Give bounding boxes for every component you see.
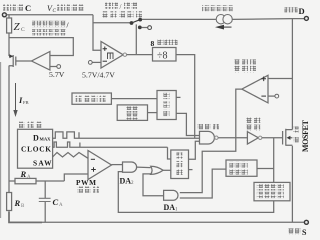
wire ff1 to main gate	[176, 113, 199, 135]
and-gate A	[123, 162, 137, 172]
label - input	[261, 95, 266, 97]
resistor RB	[7, 193, 12, 211]
flip-flop FF1 box	[157, 91, 176, 120]
wire source rail	[291, 146, 293, 223]
node - input terminal	[88, 61, 92, 65]
min on-time delay box 最小导通时间延迟	[254, 182, 290, 200]
or-gate	[151, 166, 163, 174]
wire clock to ff2	[168, 147, 171, 159]
label PWM 比较器	[76, 178, 99, 193]
label - input	[103, 60, 107, 62]
terminal S	[304, 220, 308, 224]
capacitor CA	[39, 181, 51, 222]
svg-text:÷8: ÷8	[157, 51, 168, 62]
terminal D	[304, 16, 308, 20]
label DA2	[120, 176, 135, 186]
power-on reset box	[117, 105, 147, 121]
waveform SAW	[53, 153, 88, 159]
wire ff2 stub	[189, 169, 193, 171]
svg-text:5.7V/4.7V: 5.7V/4.7V	[82, 71, 115, 80]
label + input	[103, 47, 107, 51]
op-amp shunt regulator	[32, 52, 50, 71]
svg-text:D: D	[299, 6, 305, 16]
label 过电流比较器	[234, 59, 256, 72]
node switch dot 3	[138, 26, 142, 30]
svg-text:D: D	[33, 133, 39, 142]
wire - input stub	[268, 95, 275, 97]
wire left rail upper	[8, 15, 10, 193]
svg-text:PWM: PWM	[76, 178, 96, 187]
wire RA node to PWM	[64, 174, 88, 181]
label 门极驱动	[246, 118, 260, 131]
wire switch contact stub	[142, 27, 148, 29]
wire + input to drain rail	[268, 78, 292, 80]
oscillator box	[18, 129, 53, 168]
wire drain rail vertical	[291, 19, 293, 130]
label - input	[91, 158, 95, 160]
wire Vc down	[93, 15, 101, 50]
wire andA lower input feedback	[118, 172, 273, 213]
wire andB lower output	[180, 169, 226, 198]
wire bottom source rail	[9, 221, 305, 223]
label hysteresis glyph	[108, 53, 114, 59]
op-amp overcurrent comparator	[242, 75, 268, 103]
current source	[216, 15, 232, 24]
node driver bubble	[259, 136, 262, 139]
wire C rail	[7, 14, 94, 16]
label + input	[91, 167, 96, 172]
svg-text:S: S	[302, 228, 307, 236]
label 功率	[293, 127, 299, 143]
svg-text:FB: FB	[23, 100, 29, 105]
label 主控门	[197, 123, 219, 129]
thermal protection box	[72, 93, 111, 104]
svg-text:/: /	[120, 3, 122, 11]
label Vc控制电压	[47, 4, 84, 14]
wire IFB arrow	[13, 83, 17, 117]
label RB	[14, 198, 26, 209]
wire PWM out	[112, 164, 123, 166]
wire rail below RB	[8, 211, 10, 223]
wire nand out	[218, 137, 247, 139]
wire top drain rail	[142, 18, 304, 21]
label RA	[20, 169, 32, 180]
label 源极S	[288, 228, 307, 237]
node 5.7V ref terminal	[57, 65, 61, 69]
svg-text:CLOCK: CLOCK	[21, 145, 51, 154]
transistor shunt MOSFET	[9, 54, 16, 67]
node switch dot 2	[138, 18, 142, 22]
wire driver to gate	[262, 137, 283, 139]
label 控制端C	[3, 3, 31, 13]
label 漏极D	[285, 6, 305, 16]
op-amp 5.7/4.7V comparator	[101, 42, 123, 69]
impedance Zc	[7, 18, 12, 33]
svg-text:SAW: SAW	[33, 158, 52, 167]
transistor power MOSFET	[283, 129, 293, 146]
flip-flop FF2 box	[171, 150, 189, 179]
label 关断/自动 重启动电路	[102, 3, 142, 18]
divider box ÷8	[153, 48, 177, 62]
wire comparator output path	[180, 89, 242, 193]
nand-gate main	[200, 131, 215, 144]
label DMAX	[33, 133, 51, 142]
wire switch blade	[132, 20, 141, 23]
wire switch to comparator	[135, 24, 137, 54]
terminal C	[2, 13, 6, 17]
scan edge artifact left	[0, 62, 2, 218]
oscillator label 振荡器	[19, 122, 42, 128]
wire comparator1 output to divider	[127, 54, 153, 56]
label Zc	[14, 21, 26, 33]
wire por to ff1	[148, 112, 158, 114]
svg-text:C: C	[25, 3, 31, 13]
svg-text:C: C	[21, 27, 25, 33]
label 并联调整器/误差放大器	[32, 20, 70, 35]
node - input terminal	[275, 94, 279, 98]
label DA1	[164, 203, 179, 213]
svg-text:5.7V: 5.7V	[49, 70, 65, 79]
and-gate B	[164, 190, 178, 200]
op-amp PWM comparator	[88, 151, 112, 180]
svg-text:R: R	[14, 198, 21, 208]
scan dark rail corner	[9, 212, 42, 222]
wire ff1 stub	[176, 96, 180, 98]
waveform CLOCK	[53, 142, 168, 147]
node switch junction dot 1	[130, 21, 134, 25]
wire or lower input	[143, 174, 164, 196]
buffer gate driver	[247, 132, 258, 144]
label + input	[261, 77, 266, 82]
svg-text:MAX: MAX	[40, 137, 52, 142]
svg-text:DA: DA	[120, 176, 132, 185]
wire gate of shunt mosfet	[16, 60, 32, 62]
wire switch feed	[93, 22, 131, 24]
label IFB	[18, 95, 29, 105]
leading edge blanking box 前沿闭锁电路	[226, 160, 257, 176]
wire current source arrow	[215, 25, 232, 30]
wire error amp feedback	[9, 38, 73, 56]
svg-text:C: C	[53, 197, 59, 207]
wire andA output	[137, 166, 151, 169]
svg-text:A: A	[27, 175, 31, 180]
svg-text:A: A	[59, 203, 63, 208]
wire ff2 to main gate	[189, 141, 200, 159]
label 8分频器	[151, 39, 178, 48]
label CA	[53, 197, 64, 208]
wire or output	[163, 169, 171, 171]
svg-text:DA: DA	[164, 203, 176, 212]
node switch open contact	[148, 26, 152, 30]
svg-text:8: 8	[151, 39, 155, 48]
label 高压电流源	[202, 5, 233, 11]
wire - input	[92, 61, 101, 63]
wire 5.7V ref	[50, 66, 57, 68]
node comparator output bubble	[123, 53, 126, 56]
wire thermal to ff1	[111, 98, 157, 100]
svg-text:Z: Z	[14, 21, 21, 33]
waveform DMAX	[53, 132, 200, 138]
svg-text:MOSFET: MOSFET	[301, 119, 310, 152]
svg-text:R: R	[20, 169, 27, 179]
node nand bubble	[215, 136, 218, 139]
wire divider output	[176, 55, 195, 139]
resistor RA	[9, 178, 64, 183]
wire blanking right to gate line	[257, 138, 274, 183]
